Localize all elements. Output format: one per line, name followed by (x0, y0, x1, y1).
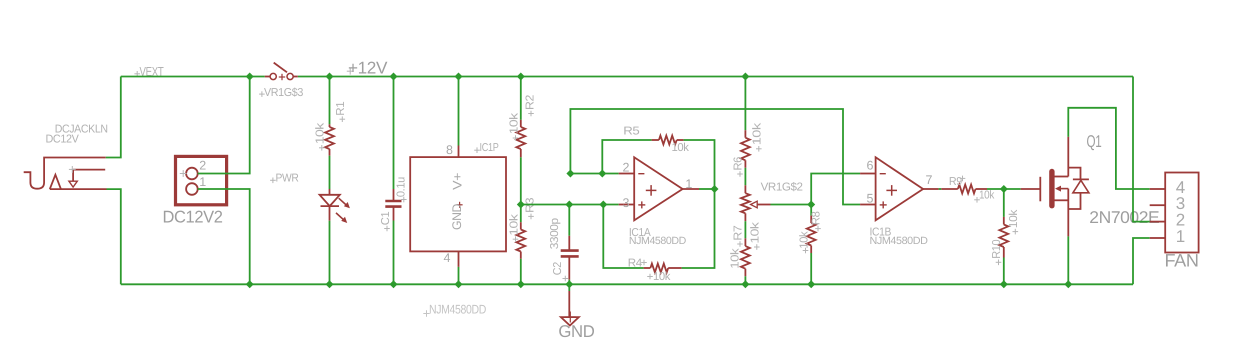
svg-text:10k: 10k (672, 142, 690, 154)
svg-text:VR1G$2: VR1G$2 (761, 182, 803, 194)
value 10k of R9 (974, 190, 994, 203)
wire IC1A pin2 segment (570, 173, 618, 175)
label VR1G$2 (761, 182, 803, 194)
wire node down to R8 (810, 205, 812, 216)
svg-text:3: 3 (623, 196, 630, 210)
svg-text:IC1P: IC1P (480, 142, 500, 154)
svg-text:6: 6 (867, 159, 874, 173)
label IC1P (474, 142, 499, 154)
label FAN (1165, 251, 1199, 271)
label DC12V2 (163, 207, 223, 226)
resistor R2 (516, 120, 525, 158)
svg-text:GND: GND (450, 204, 464, 230)
wire R8 to bottom rail (810, 253, 812, 284)
svg-text:R5: R5 (623, 125, 639, 137)
resistor R5 (652, 136, 684, 145)
wire R10 to bottom rail (1003, 258, 1005, 285)
label C1 (380, 212, 392, 232)
svg-text:DC12V2: DC12V2 (163, 207, 223, 226)
pin number 1 of FAN (1176, 227, 1185, 246)
value NJM4580DD of IC1B (870, 235, 929, 247)
svg-text:7: 7 (926, 173, 933, 187)
label R7 (733, 226, 745, 247)
label IC1A (629, 227, 651, 239)
value 10k of R3 (509, 214, 521, 242)
wire bottom rail up to FAN pin1 (1133, 238, 1150, 284)
svg-text:R8: R8 (811, 212, 823, 226)
value 10k of R6 (752, 122, 764, 151)
pin number 3 of FAN (1176, 194, 1185, 213)
junction top rail R2 (517, 73, 525, 81)
switch VR1G$3 (265, 63, 298, 81)
svg-text:FAN: FAN (1165, 251, 1199, 271)
svg-text:10k: 10k (653, 271, 671, 283)
label GND (558, 322, 594, 341)
svg-text:10k: 10k (1008, 209, 1020, 228)
value 10k of VR1G$2 (750, 222, 762, 250)
resistor R4 (644, 264, 682, 273)
wire R7 to bottom rail (744, 276, 746, 284)
junction bottom rail C1 (390, 280, 398, 288)
svg-text:10k: 10k (509, 113, 521, 135)
label Q1 (1087, 132, 1102, 151)
junction bottom rail IC1P (455, 280, 463, 288)
junction IC1A output (711, 185, 719, 193)
resistor R3 (516, 222, 525, 259)
junction node R2 R3 (517, 201, 525, 209)
wire Q1 drain loop to FAN pin4 (1068, 108, 1149, 189)
wire gate node to R10 (1003, 189, 1005, 217)
svg-text:NJM4580DD: NJM4580DD (429, 302, 486, 316)
resistor R1 (325, 124, 334, 155)
value 0.1u of C1 (396, 177, 408, 202)
pin name GND inside IC1P (450, 204, 464, 230)
label R8 (811, 212, 823, 232)
svg-text:1: 1 (199, 175, 206, 189)
wire R1 to LED (329, 156, 331, 189)
svg-text:1: 1 (685, 177, 692, 191)
svg-text:2: 2 (199, 158, 206, 172)
svg-text:PWR: PWR (276, 172, 299, 184)
op-amp IC1B (860, 157, 939, 220)
potentiometer VR1G$2 (741, 185, 771, 221)
pin number 2 of DC12V2 (199, 158, 206, 172)
wire R4 loop right (682, 189, 715, 268)
junction R5 drop (598, 170, 606, 178)
svg-text:R4: R4 (628, 258, 643, 270)
pin number 3 of IC1A (623, 196, 630, 210)
value 10k of R2 (509, 113, 521, 141)
label R1 (335, 102, 347, 122)
wire R5 feedback loop right (684, 140, 715, 189)
power connector J1 DCJACKLN labels (46, 124, 108, 146)
value 10k of R5 (672, 142, 690, 154)
svg-text:4: 4 (444, 251, 451, 265)
junction bottom rail R10 (1000, 280, 1008, 288)
svg-text:+12V: +12V (348, 58, 388, 77)
label VR1G$3 (259, 87, 303, 99)
pin number 2 of IC1A (623, 160, 630, 174)
junction bottom rail R7 (741, 280, 749, 288)
svg-text:C1: C1 (380, 212, 392, 226)
svg-text:10k: 10k (509, 214, 521, 236)
pin number 7 of IC1B (926, 173, 933, 187)
wire DC12V2 pin1 to bottom rail (198, 189, 250, 284)
wire gate node to Q1 gate (1004, 188, 1021, 190)
value 10k of R1 (315, 123, 327, 151)
label PWR (270, 172, 298, 184)
value 3300p of C2 (549, 218, 561, 249)
wire top rail down to FAN pin2 (1133, 77, 1150, 222)
pin number 6 of IC1B (867, 159, 874, 173)
wire node to R3 (520, 205, 522, 223)
wire top rail to R6 (744, 77, 746, 131)
svg-text:R9: R9 (949, 176, 962, 188)
value 2N7002E of Q1 (1089, 208, 1159, 227)
value 10k of R10 (1008, 209, 1020, 234)
wire R4 loop left (603, 205, 643, 269)
value 10k of R8 (799, 231, 811, 253)
svg-text:10k: 10k (979, 190, 995, 202)
wire top rail to R2 (520, 77, 522, 120)
wire C2 to bottom rail (568, 280, 570, 285)
junction top rail R6 (741, 73, 749, 81)
svg-text:10k: 10k (799, 231, 811, 249)
junction gate node (1000, 185, 1008, 193)
pin number 5 of IC1B (867, 192, 874, 206)
screw terminal X1 DC12V2 (176, 156, 227, 204)
wire pot to R7 (744, 221, 746, 238)
wire LED to bottom rail (329, 221, 331, 285)
svg-text:C2: C2 (552, 262, 564, 275)
wire VEXT jack to top rail (106, 77, 121, 158)
resistor R10 (999, 217, 1008, 258)
value NJM4580DD of IC1P (423, 302, 486, 316)
junction top rail IC1P (455, 73, 463, 81)
junction C2 top (565, 201, 573, 209)
svg-text:DC12V: DC12V (46, 134, 80, 146)
svg-text:8: 8 (446, 143, 453, 157)
svg-text:10k: 10k (730, 248, 742, 269)
wire R6 to pot (744, 168, 746, 186)
wire link IC1A pin2 up and over to IC1B pin5 (570, 109, 860, 205)
junction bottom rail R3 (517, 280, 525, 288)
pin number 8 of IC1P (446, 143, 453, 157)
resistor R9 (941, 185, 987, 194)
junction top rail C1 (390, 73, 398, 81)
wire GND bottom rail (121, 283, 1133, 285)
svg-text:R6: R6 (733, 157, 745, 171)
wire R5 feedback loop left (602, 140, 651, 174)
op-amp power part IC1P (410, 146, 506, 267)
svg-text:0.1u: 0.1u (396, 177, 408, 197)
wire R2 to node (520, 157, 522, 204)
pin number 2 of FAN (1176, 210, 1185, 229)
label R3 (525, 198, 537, 219)
junction bottom rail C2 (565, 280, 573, 288)
svg-text:10k: 10k (315, 123, 327, 145)
value NJM4580DD of IC1A (629, 235, 687, 247)
label R2 (525, 95, 537, 116)
capacitor C1 (385, 189, 401, 221)
label R5 (623, 125, 639, 137)
capacitor C2 (561, 236, 579, 280)
junction bottom rail Q1 source (1064, 280, 1072, 288)
junction top rail R1 (326, 73, 334, 81)
wire R9 to gate node (987, 188, 1004, 190)
wire Q1 source to bottom rail (1067, 236, 1069, 284)
label R9 (949, 176, 965, 188)
transistor Q1 2N7002E symbol (1021, 137, 1089, 237)
svg-text:R1: R1 (335, 102, 347, 116)
wire node to IC1A pin3 (521, 204, 619, 206)
svg-text:NJM4580DD: NJM4580DD (629, 235, 687, 247)
svg-text:R10: R10 (991, 240, 1003, 259)
junction top rail x250 (246, 73, 254, 81)
op-amp IC1A (619, 157, 699, 220)
svg-text:1: 1 (1176, 227, 1185, 246)
wire node to C2 (568, 205, 570, 236)
ground symbol GND (561, 312, 579, 326)
pin name V+ inside IC1P (451, 173, 465, 190)
wire IC1B output to R9 (939, 188, 942, 190)
connector FAN (1150, 173, 1199, 253)
pin number 4 of FAN (1176, 178, 1185, 197)
wire pot wiper to R8 node (771, 204, 812, 206)
wire IC1A output (699, 188, 715, 190)
svg-text:3300p: 3300p (549, 218, 561, 249)
pin number 1 of DC12V2 (199, 175, 206, 189)
label R10 (991, 240, 1003, 265)
resistor R8 (807, 216, 816, 253)
wire R3 to bottom rail (520, 259, 522, 285)
pin number 1 of IC1A (685, 177, 692, 191)
label C2 (552, 262, 568, 281)
resistor R6 (741, 130, 750, 168)
svg-text:5: 5 (867, 192, 874, 206)
svg-text:R7: R7 (733, 226, 745, 241)
wire +12V top rail (121, 76, 1133, 78)
wire node up to IC1B pin6 (811, 174, 860, 205)
value 10k of R4 (647, 271, 670, 283)
supply symbol +12V (347, 58, 388, 77)
label R6 (733, 157, 745, 177)
svg-text:2N7002E: 2N7002E (1089, 208, 1159, 227)
junction R8 node (807, 201, 815, 209)
label R4 (628, 258, 647, 270)
svg-text:Q1: Q1 (1087, 132, 1102, 151)
wire bottom rail to GND symbol (568, 284, 570, 317)
wire jack gnd to bottom rail (107, 189, 121, 284)
dc barrel jack J1 symbol (24, 158, 107, 190)
junction bottom rail x250 (246, 280, 254, 288)
svg-text:V+: V+ (451, 173, 465, 190)
net label VEXT (134, 64, 163, 79)
pin number 4 of IC1P (444, 251, 451, 265)
label IC1B (870, 226, 892, 238)
junction R4 drop (599, 201, 607, 209)
svg-text:VR1G$3: VR1G$3 (264, 87, 303, 99)
wire IC1P pin4 to bottom rail (458, 267, 460, 284)
wire DC12V2 pin2 to top rail (198, 77, 250, 174)
svg-text:GND: GND (558, 322, 594, 341)
svg-text:NJM4580DD: NJM4580DD (870, 235, 929, 247)
junction bottom rail R8 (807, 280, 815, 288)
resistor R7 (741, 238, 750, 276)
LED PWR (320, 189, 350, 223)
value 10k of R7 (730, 248, 742, 269)
wire top rail to IC1P pin8 (458, 77, 460, 146)
svg-text:10k: 10k (750, 222, 762, 244)
svg-text:R2: R2 (525, 95, 537, 110)
wire C1 to bottom rail (393, 221, 395, 285)
svg-text:10k: 10k (752, 122, 764, 145)
wire top rail to R1 (329, 77, 331, 125)
junction IC1A pin2 corner (566, 170, 574, 178)
wire top rail to C1 (393, 77, 395, 190)
junction bottom rail R1 column (326, 280, 334, 288)
svg-text:2: 2 (623, 160, 630, 174)
